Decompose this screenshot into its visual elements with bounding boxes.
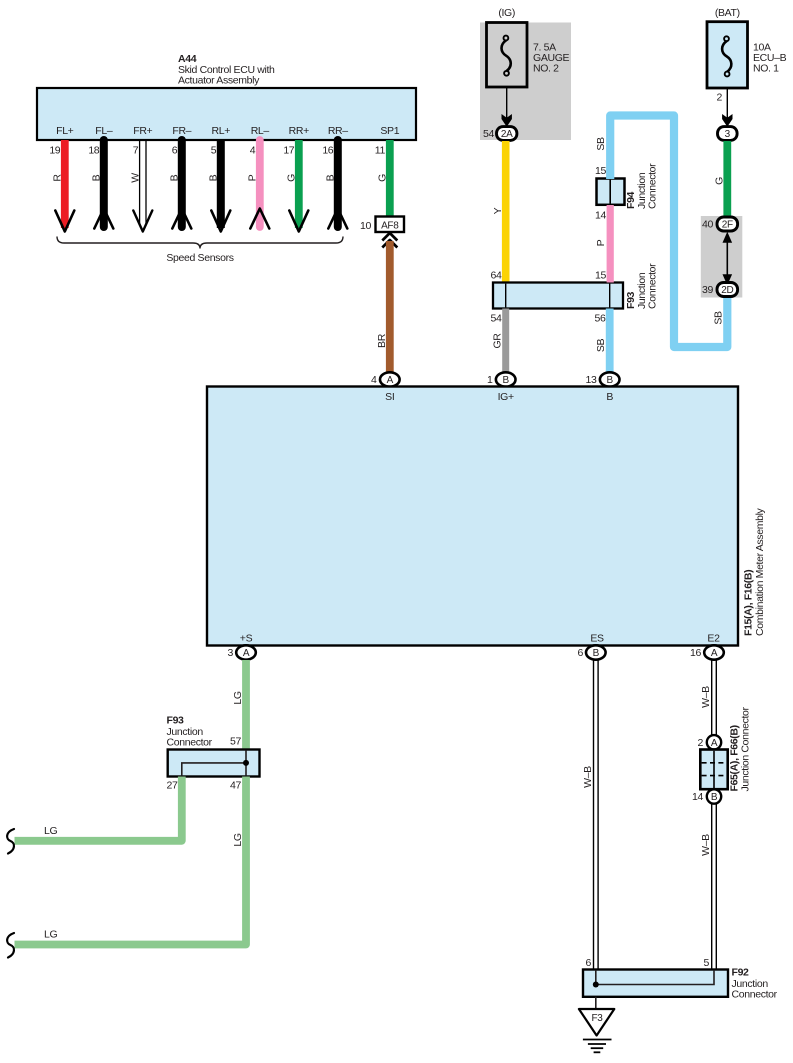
meter pin ES oval B [578,645,606,659]
wire SB (F93 to B) [595,309,610,374]
wire FR- (B black) with up arrow [168,140,191,229]
svg-text:LG: LG [232,833,244,846]
svg-text:14: 14 [595,210,606,222]
svg-text:A: A [387,375,394,386]
svg-text:Connector: Connector [732,989,778,1001]
svg-text:16: 16 [690,647,701,659]
svg-text:FL–: FL– [95,125,113,137]
ground hatch lines [583,1040,612,1053]
svg-text:ES: ES [590,633,604,645]
svg-text:E2: E2 [707,633,720,645]
svg-text:54: 54 [483,128,494,140]
wire SB loop (F94 to 2D) [595,116,727,348]
wire W-B (E2 to F65) [700,660,716,736]
svg-text:16: 16 [322,145,333,157]
svg-text:40: 40 [702,219,713,231]
wire LG (pin 47 to page left) [15,777,247,945]
meter assembly label (rotated) [743,507,767,636]
svg-text:FR–: FR– [172,125,191,137]
junction connector F93 (upper) box [493,283,623,309]
fuse output line with arrow [726,88,728,120]
svg-text:Connector: Connector [167,737,213,749]
F92 internal bus [596,971,714,985]
svg-text:P: P [246,174,258,181]
svg-text:SB: SB [595,339,607,353]
wire IG+ (Y yellow) [491,141,506,283]
A44 pin numbers [49,145,385,157]
svg-text:LG: LG [44,929,57,941]
junction connector F94 box [595,165,624,222]
speed sensors brace [57,237,343,249]
junction connector F65/F66 box [700,750,727,790]
svg-text:Combination Meter Assembly: Combination Meter Assembly [754,507,766,636]
wire FL+ (R red) with down arrow [51,140,74,232]
svg-text:R: R [51,174,63,182]
break symbol (wire 47) [7,933,14,958]
svg-text:19: 19 [49,145,60,157]
wire LG (+S to F93 lower) [232,660,246,750]
svg-text:11: 11 [375,145,386,157]
svg-text:Junction Connector: Junction Connector [740,706,752,791]
double arrow 2F-2D [723,232,733,285]
svg-text:P: P [595,239,607,246]
svg-text:W–B: W–B [700,834,712,856]
svg-text:54: 54 [491,313,502,325]
(IG) fuse grey panel [480,23,571,141]
F93 lower internal bus [182,751,246,776]
svg-text:B: B [168,174,180,181]
svg-text:B: B [90,174,102,181]
svg-text:4: 4 [371,374,377,386]
connector 2F/2D grey panel [701,216,743,298]
svg-text:Y: Y [492,207,504,214]
junction connector F92 label [732,967,778,1001]
svg-text:F92: F92 [732,967,750,979]
wire GR grey (F93 to IG+) [491,309,506,374]
svg-text:14: 14 [692,791,703,803]
meter pin IG+ oval B [487,372,516,386]
ECU A44 title [178,53,275,87]
ground F3 triangle [579,1009,614,1036]
fuse ECU-B NO.1 box [707,22,748,88]
svg-text:F3: F3 [591,1013,603,1024]
meter pin +S oval A [228,645,256,659]
svg-text:F15(A), F16(B): F15(A), F16(B) [743,570,755,636]
wire RR- (B black) with up arrow [324,140,347,229]
connector 2A oval [483,127,517,141]
wire G green (3 to 2F) [714,141,728,218]
junction connector F93 (upper) label [625,263,659,309]
connector F65 circle B [692,789,721,803]
svg-text:+S: +S [240,633,253,645]
meter pin SI oval A [371,372,400,386]
svg-text:RL–: RL– [251,125,270,137]
svg-text:13: 13 [586,374,597,386]
svg-text:SP1: SP1 [380,125,399,137]
svg-text:2: 2 [717,92,723,104]
svg-text:1: 1 [487,374,493,386]
svg-text:G: G [376,174,388,182]
fuse ECU-B NO.1 element [722,36,731,76]
wire W-B (F65 to F92 pin 5) [700,803,716,970]
fuse ECU-B NO.1 value label [753,42,787,75]
svg-text:27: 27 [167,780,178,792]
ground stem [595,997,597,1009]
connector AF8 box [360,217,404,233]
svg-text:15: 15 [595,270,606,282]
fuse output line with arrow [506,87,508,120]
svg-text:4: 4 [250,145,256,157]
svg-text:B: B [606,391,613,403]
svg-text:B: B [503,375,510,386]
junction connector F65/F66 label (rotated) [729,706,752,791]
svg-text:B: B [711,792,718,803]
svg-text:10: 10 [360,220,371,232]
svg-text:RR–: RR– [328,125,348,137]
svg-text:57: 57 [230,736,241,748]
junction connector F94 label [625,163,659,209]
junction connector F92 box [583,970,728,997]
F93 lower junction dot [243,760,249,766]
meter bottom pin labels [240,633,720,645]
svg-text:5: 5 [211,145,217,157]
svg-text:17: 17 [283,145,294,157]
svg-text:18: 18 [88,145,99,157]
svg-text:IG+: IG+ [498,391,514,403]
svg-text:Connector: Connector [647,263,659,309]
svg-text:6: 6 [172,145,178,157]
fuse GAUGE NO.2 box [487,23,528,88]
svg-text:B: B [324,174,336,181]
svg-text:B: B [207,174,219,181]
wire FR+ (W white) with down arrow [129,140,152,232]
svg-text:Connector: Connector [647,163,659,209]
svg-text:AF8: AF8 [381,221,399,232]
svg-text:BR: BR [376,333,388,348]
svg-text:G: G [714,177,726,185]
svg-text:LG: LG [232,691,244,704]
wire RL- (P pink) with up arrow [246,140,269,229]
svg-text:2D: 2D [721,285,733,296]
svg-text:G: G [285,174,297,182]
meter top pin labels [385,391,613,403]
connector 2F oval [702,217,738,231]
combination meter assembly box [207,387,738,646]
ECU A44 box [37,88,416,140]
svg-text:SB: SB [712,311,724,325]
svg-text:SI: SI [385,391,394,403]
junction connector F93 (lower) label [167,715,213,749]
svg-text:A: A [243,648,250,659]
svg-text:(BAT): (BAT) [715,7,740,19]
svg-text:56: 56 [595,313,606,325]
svg-text:NO. 2: NO. 2 [533,63,559,75]
svg-text:RL+: RL+ [212,125,231,137]
svg-text:B: B [607,375,614,386]
svg-text:F93: F93 [167,715,185,727]
wire LG (pin 27 to page left) [15,777,182,841]
svg-text:Actuator Assembly: Actuator Assembly [178,75,260,87]
break symbol (wire 27) [7,829,14,854]
svg-text:(IG): (IG) [498,7,515,19]
svg-text:Speed Sensors: Speed Sensors [166,252,233,264]
svg-text:5: 5 [704,957,710,969]
svg-text:A: A [711,738,718,749]
svg-text:W–B: W–B [582,766,594,788]
F92 junction dot [593,982,599,988]
svg-text:GR: GR [492,333,504,349]
svg-text:6: 6 [586,957,592,969]
wire RL+ (B black) with down arrow [207,140,230,232]
wire FL- (B black) with up arrow [90,140,113,229]
connector 3 circle [718,127,738,141]
svg-text:SB: SB [595,137,607,151]
svg-text:NO. 1: NO. 1 [753,63,779,75]
svg-text:A: A [711,648,718,659]
meter pin B oval B [586,372,620,386]
wire SP1 (G green) [376,140,390,217]
wire SI (BR brown) [376,241,390,373]
svg-text:FL+: FL+ [56,125,74,137]
svg-text:6: 6 [578,647,584,659]
svg-text:2F: 2F [722,220,733,231]
svg-text:3: 3 [725,129,731,140]
junction connector F93 (lower) box [168,750,260,777]
A44 pin name labels [56,125,400,137]
svg-text:39: 39 [702,284,713,296]
shield chevrons below AF8 [382,233,397,241]
connector 2D oval [702,283,738,297]
svg-text:LG: LG [44,825,57,837]
svg-text:RR+: RR+ [289,125,309,137]
svg-text:B: B [593,648,600,659]
svg-text:2: 2 [698,737,704,749]
svg-text:FR+: FR+ [133,125,152,137]
svg-text:3: 3 [228,647,234,659]
meter pin E2 oval A [690,645,724,659]
svg-text:W–B: W–B [700,686,712,708]
wire RR+ (G green) with down arrow [285,140,308,232]
svg-text:15: 15 [595,165,606,177]
svg-text:W: W [129,173,141,183]
fuse GAUGE NO.2 element [501,36,510,76]
svg-text:64: 64 [491,270,502,282]
wire P pink (F94 to F93) [595,205,610,283]
svg-text:47: 47 [230,780,241,792]
fuse GAUGE NO.2 value label [533,42,570,75]
svg-text:7: 7 [133,145,139,157]
connector F65 circle A [698,735,722,749]
wire W-B (ES to F92 pin 6) [582,660,598,970]
svg-text:2A: 2A [501,129,513,140]
